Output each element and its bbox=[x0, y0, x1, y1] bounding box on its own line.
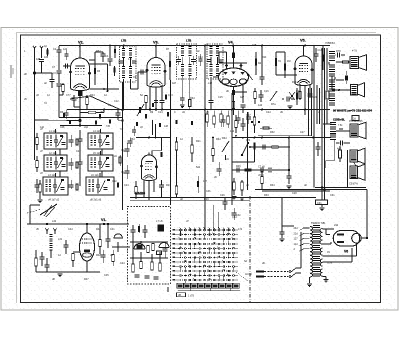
wire sp3 link bbox=[336, 130, 350, 132]
coil block L2 bbox=[44, 155, 67, 171]
caps right of blocks bbox=[125, 148, 130, 150]
tube V6 bbox=[333, 231, 360, 247]
wire under V2 to IFT0 bbox=[90, 88, 119, 90]
resistor on V4 riser bbox=[232, 52, 235, 58]
coil block L1 bbox=[44, 133, 67, 149]
resistor R15 bbox=[299, 92, 302, 99]
IF transformer L7 box bbox=[177, 44, 197, 79]
V4 grid leads bbox=[213, 76, 219, 78]
wire antenna down-leads bbox=[34, 51, 36, 121]
capacitor C20 bbox=[337, 53, 339, 58]
components right of V4 bbox=[255, 59, 257, 66]
resistor R14 bbox=[322, 55, 324, 62]
small parts left bottom bbox=[35, 258, 38, 266]
speaker SP1 bbox=[350, 57, 359, 69]
cap C8a bbox=[65, 53, 69, 55]
capacitor C2 bbox=[58, 46, 60, 50]
V6 output wires bbox=[362, 237, 368, 239]
svg-text:11d: 11d bbox=[294, 243, 299, 246]
fm tube fill bbox=[137, 245, 143, 249]
fm caps top bbox=[131, 229, 136, 231]
psu node bbox=[366, 237, 368, 239]
speaker SP3 bbox=[350, 124, 358, 137]
svg-text:C4d: C4d bbox=[68, 228, 73, 231]
chassis divider dash-dot bbox=[249, 196, 251, 302]
cap near matrix top bbox=[232, 212, 237, 214]
resistor R16 bbox=[343, 61, 349, 63]
em80 top parts bbox=[128, 140, 133, 142]
svg-text:C33: C33 bbox=[206, 190, 211, 193]
svg-text:1dd: 1dd bbox=[258, 104, 263, 107]
V2 base blob bbox=[78, 91, 83, 96]
wire vertical right x322 bbox=[321, 48, 323, 200]
wire bus y189 right bbox=[255, 189, 367, 191]
svg-text:C16: C16 bbox=[264, 90, 269, 93]
svg-text:V4.: V4. bbox=[228, 41, 234, 45]
svg-text:C3d: C3d bbox=[232, 216, 237, 219]
transformer taps bbox=[303, 227, 310, 229]
V1 leads bbox=[86, 224, 88, 233]
tube V3 bbox=[147, 58, 165, 88]
speaker SP4 bbox=[350, 150, 358, 162]
matrix left labels bbox=[173, 229, 176, 231]
svg-text:R71: R71 bbox=[292, 81, 297, 84]
coil L13a bbox=[210, 64, 213, 65]
wire v1 bottom bbox=[36, 271, 100, 273]
wire verticals tone feedback bbox=[308, 88, 310, 136]
resistor R24 bbox=[175, 186, 178, 194]
svg-text:5dd: 5dd bbox=[196, 166, 201, 169]
capacitor C30 bbox=[223, 201, 228, 203]
svg-text:7d5: 7d5 bbox=[106, 125, 111, 128]
resistor x198 bbox=[197, 181, 199, 187]
resistor R31 bbox=[253, 143, 255, 150]
svg-text:C23B+BL: C23B+BL bbox=[333, 118, 345, 122]
capacitor C9 bbox=[72, 97, 77, 99]
svg-text:L1 1d1: L1 1d1 bbox=[49, 130, 57, 133]
band blobs y120-128 bbox=[136, 122, 138, 126]
fm resistors bottom bbox=[132, 264, 134, 272]
capacitor C18 bbox=[314, 53, 319, 55]
resistor R10 dark bbox=[232, 90, 235, 95]
svg-text:C15: C15 bbox=[218, 96, 223, 99]
tube V1 bbox=[80, 233, 95, 261]
V6 filament circle bbox=[352, 233, 362, 243]
fm extra parts bbox=[163, 248, 168, 250]
parts x118-127 col bbox=[119, 157, 121, 163]
resistor R20 bbox=[175, 142, 178, 150]
svg-text:C5/d7%: C5/d7% bbox=[349, 183, 359, 186]
capacitor C28 bbox=[287, 175, 292, 177]
fm bottom caps bbox=[135, 274, 140, 276]
resistor R1 bbox=[46, 50, 48, 55]
capacitor below IFT1 bbox=[180, 97, 185, 99]
dial cord dashes bbox=[27, 210, 40, 214]
coil L7Aa bbox=[122, 48, 125, 49]
cap between IFTs bbox=[199, 58, 203, 60]
svg-text:R8d: R8d bbox=[96, 50, 101, 53]
border frame bbox=[21, 35, 381, 303]
svg-text:L2 1d1: L2 1d1 bbox=[49, 152, 57, 155]
coil L12a bbox=[210, 46, 213, 47]
parts x205-230 bbox=[212, 149, 215, 156]
svg-text:C3d: C3d bbox=[236, 214, 241, 217]
transformer secondary HT bbox=[320, 229, 322, 233]
wire IFT0 links bbox=[123, 46, 125, 49]
svg-text:1d8: 1d8 bbox=[164, 125, 169, 128]
mains switch bbox=[289, 271, 291, 273]
divider resistor cluster bbox=[206, 114, 208, 122]
mid cluster under V4 bbox=[254, 92, 257, 99]
resistor R3 V2 screen bbox=[94, 68, 96, 74]
wire EM80 top bbox=[151, 151, 153, 156]
svg-text:22d: 22d bbox=[294, 232, 299, 235]
svg-text:C: C bbox=[174, 111, 176, 114]
IF transformer L12 box bbox=[207, 44, 223, 79]
wire coil blocks top feed bbox=[60, 125, 102, 127]
svg-text:C26: C26 bbox=[220, 194, 225, 197]
antenna terminal A1 bbox=[33, 46, 36, 49]
coil block L5 bbox=[88, 155, 113, 171]
transformer secondary 63V bbox=[320, 259, 322, 263]
capacitor C80 bbox=[280, 231, 285, 233]
coil block L3 bbox=[43, 177, 68, 195]
svg-text:L7B: L7B bbox=[121, 39, 126, 43]
capacitor C25 bbox=[159, 184, 164, 186]
svg-text:R7a: R7a bbox=[271, 103, 276, 106]
wires coil blocks column links bbox=[59, 149, 61, 155]
V2 cathode lead bbox=[79, 90, 81, 121]
svg-text:L5 1d1: L5 1d1 bbox=[93, 152, 101, 155]
speaker SP2 bbox=[351, 85, 358, 96]
wire V2 anode up bbox=[94, 52, 96, 60]
svg-text:C48: C48 bbox=[60, 126, 65, 129]
capacitors between blocks bbox=[78, 138, 83, 140]
svg-text:C41: C41 bbox=[110, 228, 115, 231]
svg-text:d8 2d1 d6: d8 2d1 d6 bbox=[90, 199, 102, 202]
V1 innards bbox=[82, 242, 92, 244]
transformer secondary 4V bbox=[320, 248, 322, 252]
tube V4 bbox=[219, 68, 249, 86]
wire V5 grid bbox=[276, 74, 297, 76]
svg-text:R32: R32 bbox=[270, 131, 275, 134]
svg-text:127: 127 bbox=[294, 238, 299, 241]
tube V2 bbox=[71, 58, 90, 91]
capacitor C10 bbox=[101, 53, 106, 55]
svg-text:R29: R29 bbox=[204, 198, 209, 201]
blob x114 bbox=[113, 68, 115, 73]
band blobs below bus bbox=[63, 113, 65, 118]
wire y189 corner down bbox=[366, 190, 368, 239]
wires into fm bbox=[112, 246, 130, 248]
svg-text:L3 1d1: L3 1d1 bbox=[48, 174, 56, 177]
wire left column down bbox=[34, 120, 36, 160]
ground C61 bbox=[320, 207, 325, 209]
coil L7b bbox=[188, 46, 191, 47]
potentiometer under V3 bbox=[137, 104, 144, 116]
wire vertical bus x205 bbox=[204, 46, 206, 231]
resistor R12 bbox=[275, 58, 277, 66]
capacitor C15 bbox=[241, 104, 246, 106]
svg-text:dB: dB bbox=[178, 294, 181, 297]
svg-text:R33: R33 bbox=[264, 194, 269, 197]
svg-text:R23: R23 bbox=[166, 184, 171, 187]
output transformer T2 bbox=[330, 122, 336, 123]
wires x152-155 down bbox=[152, 120, 154, 135]
small parts under V3 bbox=[165, 95, 167, 100]
coil L7Ab bbox=[129, 48, 132, 49]
capacitor C11 bbox=[116, 112, 121, 114]
svg-text:7dB: 7dB bbox=[252, 44, 257, 47]
output transformer T1 bbox=[329, 51, 335, 52]
svg-text:C77: C77 bbox=[66, 94, 71, 97]
capacitor C4 bbox=[57, 83, 62, 85]
IF transformer L7A box bbox=[120, 46, 137, 82]
capacitor trimmers IFT2 bbox=[207, 59, 211, 61]
border frame inner light rule bbox=[16, 32, 376, 34]
capacitor C61 box bbox=[316, 200, 328, 205]
tone switch X bbox=[289, 92, 295, 100]
transformer primary loops bbox=[310, 227, 313, 231]
svg-text:AC/1d: AC/1d bbox=[245, 273, 252, 276]
wire top bus drop to V2 bbox=[79, 46, 81, 59]
svg-text:C44: C44 bbox=[120, 262, 125, 265]
SP4-SP5 link arrow bbox=[353, 162, 357, 167]
svg-text:4V: 4V bbox=[327, 250, 330, 254]
svg-text:C13: C13 bbox=[168, 94, 173, 97]
svg-text:# 7d: # 7d bbox=[352, 50, 357, 53]
capacitor C16 bbox=[260, 76, 265, 78]
resistor R5 horizontal bbox=[88, 111, 96, 114]
svg-text:L3d: L3d bbox=[52, 220, 57, 223]
wire V2 anode right path bbox=[89, 63, 108, 65]
wire right verticals join bbox=[321, 186, 323, 188]
node dot antenna junction bbox=[33, 72, 36, 75]
svg-text:1d2: 1d2 bbox=[63, 48, 68, 51]
svg-text:C61: C61 bbox=[330, 194, 335, 197]
blob x115 y51 bbox=[114, 49, 116, 54]
matrix diagonal dashed bbox=[236, 272, 248, 281]
svg-text:C45: C45 bbox=[104, 274, 109, 277]
label band row items bbox=[69, 120, 71, 124]
svg-text:C27: C27 bbox=[300, 131, 305, 134]
wire vertical bus x122 bbox=[122, 82, 124, 205]
svg-text:R42: R42 bbox=[96, 254, 101, 257]
node dots on top bus bbox=[79, 45, 81, 47]
wire bottom bus FM out bbox=[167, 287, 169, 292]
svg-text:C5d: C5d bbox=[112, 180, 117, 183]
svg-text:C7 d8: C7 d8 bbox=[258, 166, 265, 169]
capacitor C3 bbox=[57, 70, 62, 72]
FM tuner box bbox=[128, 207, 171, 285]
coil L12b bbox=[216, 46, 219, 47]
svg-text:4dB: 4dB bbox=[36, 58, 41, 61]
resistor R4 bbox=[86, 98, 89, 105]
svg-text:C61: C61 bbox=[317, 202, 322, 205]
fm coil bbox=[158, 225, 165, 232]
extra under V3 bbox=[154, 100, 158, 102]
mid cluster lower bbox=[235, 121, 238, 128]
svg-text:C14: C14 bbox=[158, 111, 163, 114]
svg-text:R15: R15 bbox=[296, 90, 301, 93]
antenna coil winding bbox=[49, 234, 52, 235]
wires into matrix top bbox=[213, 205, 215, 229]
capacitor C1 bbox=[39, 59, 44, 61]
svg-text:C1d: C1d bbox=[198, 56, 203, 59]
resistor R21 bbox=[191, 145, 194, 153]
coil L13b bbox=[216, 64, 219, 65]
cap bottom left bbox=[45, 264, 50, 266]
wire chain to bus bbox=[288, 138, 290, 171]
svg-text:R47: R47 bbox=[84, 278, 89, 281]
wire bus y137 bbox=[232, 137, 331, 139]
capacitor trimmers IFT1 bbox=[176, 59, 181, 61]
switch matrix bbox=[176, 229, 238, 231]
resistor R7 bbox=[169, 61, 171, 67]
svg-text:TRAFO 7d5.: TRAFO 7d5. bbox=[311, 221, 326, 225]
svg-text:R3d: R3d bbox=[190, 97, 195, 100]
EM80 pins bbox=[143, 180, 145, 198]
components right of V1 bbox=[99, 240, 102, 247]
svg-text:d4 1d7 d2: d4 1d7 d2 bbox=[48, 199, 60, 202]
resistor R30 bbox=[253, 117, 256, 125]
V4 inner systems bbox=[222, 79, 229, 84]
svg-text:V2.: V2. bbox=[78, 41, 84, 45]
coil L8a bbox=[181, 64, 184, 65]
svg-text:1d7: 1d7 bbox=[203, 180, 208, 183]
svg-text:R44: R44 bbox=[90, 94, 95, 97]
wire bus y224 bbox=[27, 223, 129, 225]
wire vertical x314 B+ bbox=[313, 46, 315, 188]
capacitor C34 bbox=[340, 141, 342, 146]
svg-text:L7B: L7B bbox=[186, 39, 191, 43]
bottom left small parts bbox=[39, 184, 42, 192]
wire c-column bottom bbox=[59, 94, 63, 96]
resistor R8 bbox=[145, 96, 148, 103]
svg-text:d7dd: d7dd bbox=[258, 174, 264, 177]
switch S2 bbox=[242, 143, 248, 155]
svg-text:R4d: R4d bbox=[96, 228, 101, 231]
resistor R13 bbox=[284, 64, 286, 71]
svg-text:L4 1d1: L4 1d1 bbox=[93, 130, 101, 133]
svg-text:C12: C12 bbox=[114, 100, 119, 103]
small box under text bbox=[352, 116, 359, 121]
coil L8b bbox=[188, 64, 191, 65]
svg-text:L7 L8: L7 L8 bbox=[156, 219, 163, 223]
svg-text:C2d: C2d bbox=[266, 111, 271, 114]
svg-text:C17: C17 bbox=[246, 114, 251, 117]
wire bus y162 bbox=[232, 161, 255, 163]
resistor R40 bbox=[72, 254, 75, 261]
svg-text:1M: 1M bbox=[287, 60, 290, 63]
potentiometer R60 bbox=[222, 141, 229, 152]
svg-text:R6d: R6d bbox=[222, 137, 227, 140]
wire vertical x247.5 bbox=[247, 112, 249, 190]
svg-text:705B/5d: 705B/5d bbox=[325, 41, 335, 45]
resistors tone bottom bbox=[233, 182, 236, 190]
svg-text:C22: C22 bbox=[76, 150, 81, 153]
svg-text:R5d: R5d bbox=[130, 138, 135, 141]
wire em80 col down bbox=[122, 205, 124, 210]
svg-text:R78: R78 bbox=[336, 50, 341, 53]
transformer bottom grounds bbox=[309, 277, 311, 283]
svg-text:4d7: 4d7 bbox=[240, 96, 245, 99]
wire speakers bottom bus bbox=[315, 187, 366, 189]
antenna terminal A2 bbox=[40, 46, 43, 49]
tone chain bbox=[232, 169, 258, 171]
svg-text:V3.: V3. bbox=[153, 41, 159, 45]
svg-text:V6: V6 bbox=[344, 250, 348, 254]
margin artifact mark bbox=[10, 65, 12, 78]
svg-text:1.3: 1.3 bbox=[128, 58, 132, 61]
trimmers IFT0 bbox=[119, 60, 124, 62]
node junction below V2 bbox=[79, 119, 82, 122]
V3 cathode leads bbox=[149, 86, 151, 110]
wire vertical bus x232 bbox=[231, 93, 233, 205]
svg-text:R11: R11 bbox=[262, 56, 267, 59]
coil L7Ad bbox=[129, 66, 132, 67]
AGC snake wire bbox=[70, 96, 123, 111]
wire y135.8 bbox=[258, 135, 312, 137]
resistor R33 bbox=[261, 177, 264, 184]
transformer core bbox=[313, 225, 320, 226]
wire IFT2 links bbox=[211, 45, 218, 47]
svg-text:17d: 17d bbox=[246, 139, 251, 142]
svg-text:L6 1d1: L6 1d1 bbox=[91, 174, 99, 177]
wire top bus drop to V5 bbox=[303, 46, 305, 57]
fm tube triode bbox=[134, 244, 145, 250]
resistor R36 bbox=[339, 150, 342, 158]
capacitor C41 bbox=[106, 238, 111, 240]
wire V4 anode up bbox=[233, 46, 235, 63]
node dots bus109 bbox=[122, 109, 124, 111]
V6 wires bbox=[323, 228, 335, 230]
wire bus y191 bbox=[262, 190, 330, 192]
left filter column parts bbox=[36, 138, 39, 145]
parts V1 lower bbox=[101, 254, 106, 256]
resistor R22 bbox=[135, 187, 138, 194]
svg-text:EM80: EM80 bbox=[135, 191, 145, 196]
resistor below IFT1 bbox=[189, 100, 192, 107]
blobs y122 bbox=[251, 121, 253, 123]
wire bus y197 bbox=[130, 197, 316, 199]
fm triode 2 bbox=[159, 242, 169, 247]
svg-text:R34: R34 bbox=[270, 184, 275, 187]
svg-text:d12: d12 bbox=[84, 126, 89, 129]
wire vertical right x327 bbox=[326, 48, 328, 90]
tube V5 bbox=[295, 56, 312, 86]
wire bus y121 left bbox=[35, 119, 81, 122]
speaker SP5 bbox=[350, 166, 358, 179]
fm small rect bbox=[157, 251, 162, 255]
coil block L6 bbox=[86, 177, 114, 195]
svg-text:C19: C19 bbox=[312, 96, 317, 99]
coil L7Ac bbox=[122, 66, 125, 67]
coil L7a bbox=[181, 46, 184, 47]
capacitor C8 grid V2 bbox=[63, 65, 71, 67]
loose parts between blocks bbox=[69, 139, 74, 141]
wire bus y200.8 bbox=[130, 200, 250, 202]
wire bus y117 left bbox=[59, 117, 123, 119]
svg-text:96 WA/07E pa=79 CB1-622-634: 96 WA/07E pa=79 CB1-622-634 bbox=[333, 109, 372, 113]
wire antenna link bbox=[35, 72, 42, 74]
svg-text:1dd: 1dd bbox=[230, 130, 235, 133]
resistor R2 bbox=[62, 85, 65, 92]
svg-text:1 d73: 1 d73 bbox=[188, 295, 195, 298]
cap res mid bbox=[286, 97, 288, 102]
wire pair x110 bbox=[109, 46, 111, 59]
svg-text:R6d: R6d bbox=[216, 138, 221, 141]
